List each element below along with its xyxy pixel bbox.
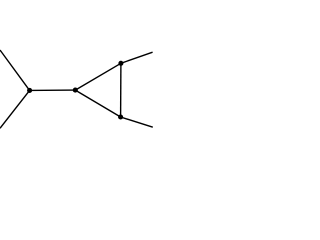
wire: edge from node A to upper-left (clipped at canvas edge) — [0, 50, 30, 90]
node D — [118, 114, 123, 119]
wire: edge B-C — [75, 63, 121, 90]
wire: edge B-D — [75, 90, 120, 117]
node A — [27, 88, 32, 93]
node C — [118, 61, 123, 66]
wire: edge from node C to upper-right (truncated) — [121, 52, 153, 63]
wire: edge from node D to lower-right (truncated) — [121, 117, 153, 127]
wire: edge C-D — [120, 63, 122, 117]
node B — [73, 88, 78, 93]
wire: edge from node A to lower-left (clipped at canvas edge) — [0, 90, 30, 128]
wire: edge A-B — [30, 89, 76, 91]
